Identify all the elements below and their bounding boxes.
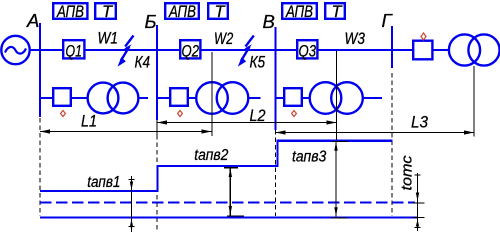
graph dashed level line	[40, 202, 415, 204]
svg-text:АПВ: АПВ	[56, 3, 84, 21]
red mark 1	[61, 111, 66, 117]
wire feeder section 1	[40, 97, 88, 99]
svg-text:Q3: Q3	[299, 43, 317, 61]
transformer T3	[310, 82, 363, 114]
dimension arrow tapv3	[332, 142, 349, 218]
node A dashed extension	[39, 118, 41, 216]
node G dashed extension	[391, 73, 393, 216]
load box section 2	[170, 88, 188, 106]
svg-text:К5: К5	[250, 53, 266, 72]
relay block APV 2	[165, 3, 199, 21]
relay block T 2	[208, 3, 228, 21]
generator G	[1, 36, 29, 64]
svg-text:Q2: Q2	[182, 43, 200, 61]
dimension arrow totc	[413, 173, 425, 231]
extension line at x477	[473, 66, 475, 137]
svg-text:L2: L2	[250, 106, 266, 125]
graph step line	[40, 141, 393, 191]
node V dashed extension	[275, 130, 277, 216]
dimension L3	[276, 112, 475, 134]
dimension L2	[157, 106, 337, 125]
svg-text:tапв1: tапв1	[87, 174, 120, 191]
svg-text:Б: Б	[145, 11, 157, 32]
red mark 2	[178, 111, 183, 117]
graph bottom line	[40, 216, 417, 218]
wire feeder section 3	[276, 97, 311, 99]
dimension arrow tapv2	[224, 168, 244, 217]
svg-text:АПВ: АПВ	[168, 3, 196, 21]
svg-text:В: В	[263, 11, 275, 32]
red mark 4	[421, 33, 426, 40]
svg-text:W1: W1	[98, 29, 119, 47]
svg-text:tапв3: tапв3	[292, 149, 327, 166]
svg-text:АПВ: АПВ	[285, 3, 313, 21]
svg-text:А: А	[26, 10, 39, 31]
svg-text:W2: W2	[214, 30, 233, 48]
wire main feeder line	[29, 49, 449, 51]
svg-text:К4: К4	[135, 53, 151, 72]
svg-text:tапв2: tапв2	[194, 147, 228, 164]
svg-text:L3: L3	[411, 112, 428, 131]
relay block APV 1	[53, 3, 87, 21]
transformer T2	[196, 82, 248, 114]
fault K5 bolt	[238, 36, 254, 67]
node G busbar (Г)	[391, 26, 393, 68]
svg-text:Q1: Q1	[66, 43, 83, 61]
node B busbar (Б)	[156, 25, 158, 120]
fault K4 bolt	[118, 36, 134, 67]
relay block T 1	[95, 3, 116, 21]
load box section 4	[413, 41, 432, 60]
wire feeder section 2	[157, 97, 197, 99]
svg-text:L1: L1	[81, 112, 97, 131]
dimension arrow tapv1	[129, 176, 135, 232]
breaker Q1	[63, 40, 84, 60]
node B dashed extension	[156, 120, 158, 135]
load box section 1	[53, 88, 71, 106]
node A busbar	[39, 23, 41, 117]
relay block APV 3	[282, 3, 317, 21]
breaker Q2	[180, 40, 200, 60]
dimension L1	[40, 112, 212, 134]
extension line at x336	[336, 51, 338, 140]
red mark 3	[292, 111, 297, 117]
extension line at x212	[211, 52, 213, 136]
relay block T 3	[325, 3, 345, 21]
transformer T1	[88, 83, 139, 114]
load box section 3	[284, 88, 302, 106]
svg-text:tотс: tотс	[399, 155, 416, 191]
node V busbar (В)	[274, 27, 276, 130]
breaker Q3	[297, 40, 317, 60]
transformer T4	[449, 34, 500, 65]
svg-text:W3: W3	[345, 30, 366, 48]
